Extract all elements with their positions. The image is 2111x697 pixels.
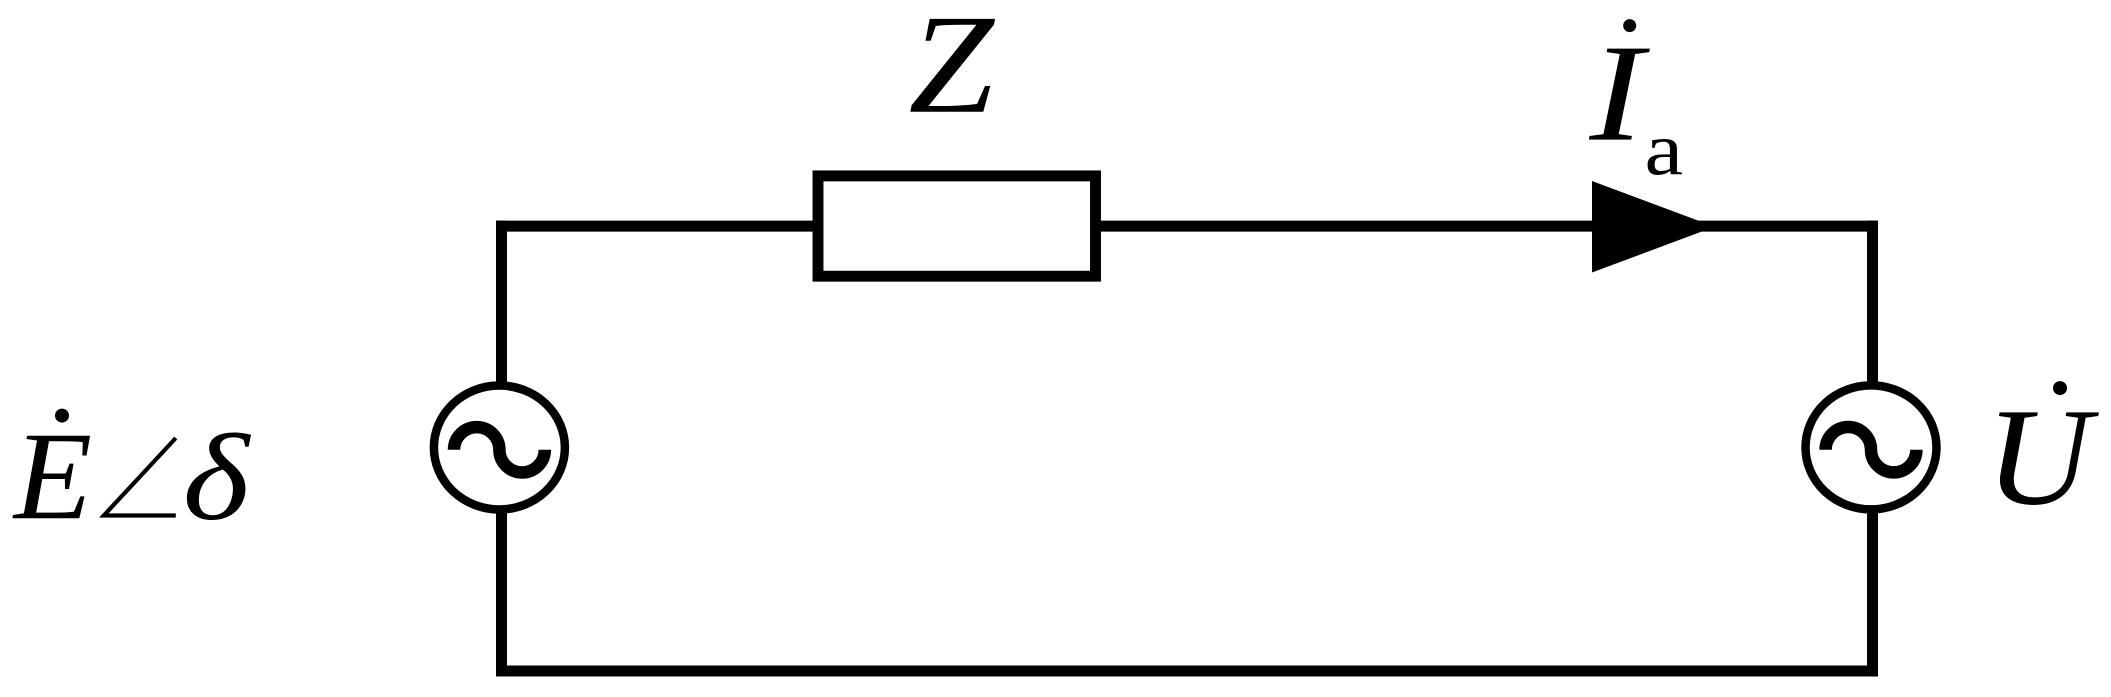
voltage source E (AC source): [434, 386, 565, 510]
wire bottom: [496, 666, 1878, 677]
label Z: [908, 0, 995, 143]
wire left: [496, 221, 507, 677]
voltage source U (AC source): [1806, 385, 1937, 509]
wire right: [1867, 221, 1878, 677]
label Ia: [1588, 15, 1683, 191]
label U: [1986, 380, 2100, 534]
svg-text:Z: Z: [908, 0, 995, 143]
svg-text:E: E: [12, 407, 92, 546]
svg-text:U: U: [1986, 380, 2100, 534]
label E angle delta: [12, 407, 251, 546]
svg-text:I: I: [1588, 15, 1650, 170]
current arrow Ia: [1592, 181, 1715, 273]
svg-text:δ: δ: [183, 409, 251, 546]
svg-text:a: a: [1645, 108, 1684, 191]
impedance Z (resistor box): [818, 176, 1096, 276]
wire top: [496, 221, 1878, 232]
